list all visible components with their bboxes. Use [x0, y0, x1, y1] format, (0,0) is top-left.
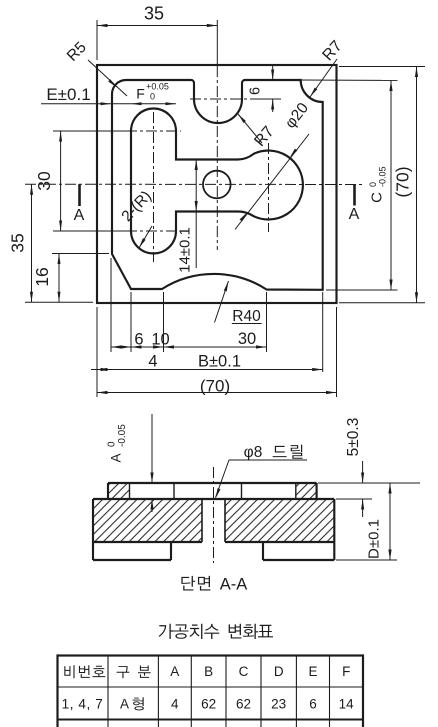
svg-text:62: 62 [201, 697, 216, 712]
svg-text:A-A: A-A [220, 576, 248, 594]
svg-text:35: 35 [144, 4, 164, 24]
arrow F right [166, 102, 177, 105]
svg-text:R7: R7 [319, 38, 345, 65]
svg-text:62: 62 [236, 697, 251, 712]
svg-text:6: 6 [248, 87, 264, 95]
section slot wall edge 2 [173, 483, 175, 499]
dim line E/F [41, 103, 176, 105]
svg-text:30: 30 [34, 171, 54, 191]
slot bottom arc centerline [126, 230, 181, 232]
section foot inner wall left [170, 542, 172, 560]
svg-text:4: 4 [171, 697, 179, 712]
svg-text:6: 6 [134, 331, 143, 349]
section boss step right [316, 483, 318, 499]
svg-text:+0.05: +0.05 [146, 82, 169, 92]
svg-text:R40: R40 [232, 308, 261, 325]
svg-text:D±0.1: D±0.1 [366, 519, 383, 559]
section left wall [92, 499, 94, 560]
ext line notch center level [253, 98, 281, 100]
label A tolerance [107, 424, 129, 463]
svg-text:F: F [342, 664, 350, 679]
phi8 drilled hole [203, 171, 231, 199]
svg-text:35: 35 [8, 233, 28, 252]
table title [159, 624, 174, 639]
svg-text:6: 6 [309, 697, 317, 712]
section slot wall edge [129, 483, 131, 499]
ext line bottom right [336, 559, 397, 561]
section hatched areas [108, 483, 130, 499]
svg-text:30: 30 [238, 330, 256, 348]
svg-text:B: B [204, 664, 213, 679]
svg-text:14±0.1: 14±0.1 [177, 227, 194, 273]
table row separators [58, 686, 364, 688]
section right wall [333, 499, 335, 560]
ext line blank bottom right [339, 302, 425, 304]
horizontal main centerline (section cut A-A) [25, 183, 365, 185]
svg-text:A: A [109, 453, 124, 462]
ext line contour right bottom [322, 292, 324, 372]
dim D tolerance [389, 483, 391, 560]
table header labels korean [64, 665, 74, 678]
svg-text:1, 4, 7: 1, 4, 7 [62, 697, 104, 712]
section hole centerline [213, 467, 215, 563]
table column lines [107, 656, 109, 727]
ext lines blank bottom [96, 307, 98, 397]
dim phi20 diameter line [235, 134, 309, 230]
svg-text:B±0.1: B±0.1 [198, 353, 241, 371]
vertical centerline phi20 [268, 143, 270, 232]
svg-text:E±0.1: E±0.1 [46, 85, 90, 104]
ext line slot bottom center [53, 230, 126, 232]
svg-text:A: A [120, 697, 129, 712]
horizontal centerline notch R7 [190, 98, 253, 100]
section floor line [93, 498, 334, 500]
pocket outline: obround slot + channel + phi20 circle [131, 109, 303, 254]
svg-text:16: 16 [32, 267, 52, 286]
section boss top line [108, 482, 317, 484]
caption section A-A [181, 576, 195, 591]
ext line ledge right [336, 498, 372, 500]
svg-text:0: 0 [368, 182, 378, 187]
section boss step left [107, 483, 109, 499]
svg-text:A: A [349, 206, 360, 223]
ext line slot bottom [52, 253, 109, 255]
ext line contour bottom right [326, 289, 398, 291]
section recess line [93, 541, 202, 543]
arrow phi20 lower [240, 212, 248, 221]
outer blank rectangle 70x70 [97, 65, 337, 303]
svg-text:23: 23 [271, 697, 286, 712]
svg-text:0: 0 [107, 441, 118, 447]
dim 35 top [97, 25, 217, 27]
svg-text:0: 0 [150, 92, 155, 102]
svg-text:-0.05: -0.05 [117, 424, 128, 447]
label 2-(R) leader [139, 226, 152, 248]
section circle edge [295, 483, 297, 499]
svg-text:-0.05: -0.05 [378, 166, 388, 187]
machined step contour 62x62 with R5/R7 features [112, 80, 323, 290]
label phi8 drill leader [216, 460, 230, 498]
label R40 leader [215, 281, 229, 323]
dim 30 left [60, 131, 62, 231]
ext line contour top right [299, 79, 398, 81]
dim 35 left [31, 184, 33, 302]
svg-text:C: C [369, 192, 386, 203]
label C tolerance [368, 166, 388, 202]
svg-text:A: A [74, 207, 85, 224]
svg-text:R5: R5 [64, 39, 90, 65]
arrow phi20 upper [290, 149, 298, 158]
ext line boss top right [318, 482, 420, 484]
section channel edge [241, 483, 243, 499]
ext line blank top right [339, 66, 425, 68]
label R7 notch leader [238, 114, 262, 143]
section mark A right [353, 185, 356, 206]
vertical centerline slot [153, 112, 155, 262]
dim row (70) bottom [97, 392, 337, 394]
ext line part bottom left [25, 301, 93, 303]
svg-text:R7: R7 [251, 123, 277, 150]
dim row 4 / B [91, 369, 323, 371]
section mark A left [78, 184, 81, 206]
section foot inner wall right [262, 542, 264, 560]
svg-text:(70): (70) [393, 166, 413, 197]
dim row 6/10/30 [111, 346, 267, 348]
label R7 top right leader [310, 59, 337, 97]
dim (70) right [416, 67, 418, 303]
section foot bottom left [93, 559, 171, 561]
svg-text:φ20: φ20 [282, 99, 312, 131]
ext line slot top center [53, 130, 126, 132]
ext lines bottom row1 [110, 258, 112, 352]
svg-text:(70): (70) [200, 377, 230, 396]
svg-text:D: D [274, 664, 284, 679]
vertical centerline notch and hole [216, 66, 218, 250]
svg-text:E: E [308, 664, 317, 679]
svg-text:4: 4 [148, 353, 157, 371]
label R5 leader [88, 60, 127, 96]
svg-text:φ8: φ8 [244, 444, 263, 461]
svg-text:14: 14 [339, 697, 355, 712]
dim 6 notch depth [272, 66, 274, 80]
svg-text:A: A [170, 664, 179, 679]
arrow E right [101, 102, 112, 105]
svg-text:10: 10 [151, 331, 169, 349]
table outer border [58, 656, 364, 727]
section foot bottom right [263, 559, 334, 561]
svg-text:2-(R): 2-(R) [118, 188, 155, 225]
svg-text:F: F [136, 86, 145, 102]
section hole wall right [224, 499, 226, 542]
dim C right [390, 81, 392, 291]
dim 14 channel [195, 160, 197, 269]
dim 16 left [58, 254, 60, 303]
dim 5 tolerance [362, 461, 364, 483]
dim 35 top extension lines [96, 20, 98, 60]
section hole wall left [201, 499, 203, 542]
arrow F left [131, 102, 142, 105]
slot top arc centerline [126, 130, 181, 132]
svg-text:C: C [239, 664, 249, 679]
dim A depth leader [151, 414, 153, 483]
svg-text:5±0.3: 5±0.3 [345, 418, 362, 457]
